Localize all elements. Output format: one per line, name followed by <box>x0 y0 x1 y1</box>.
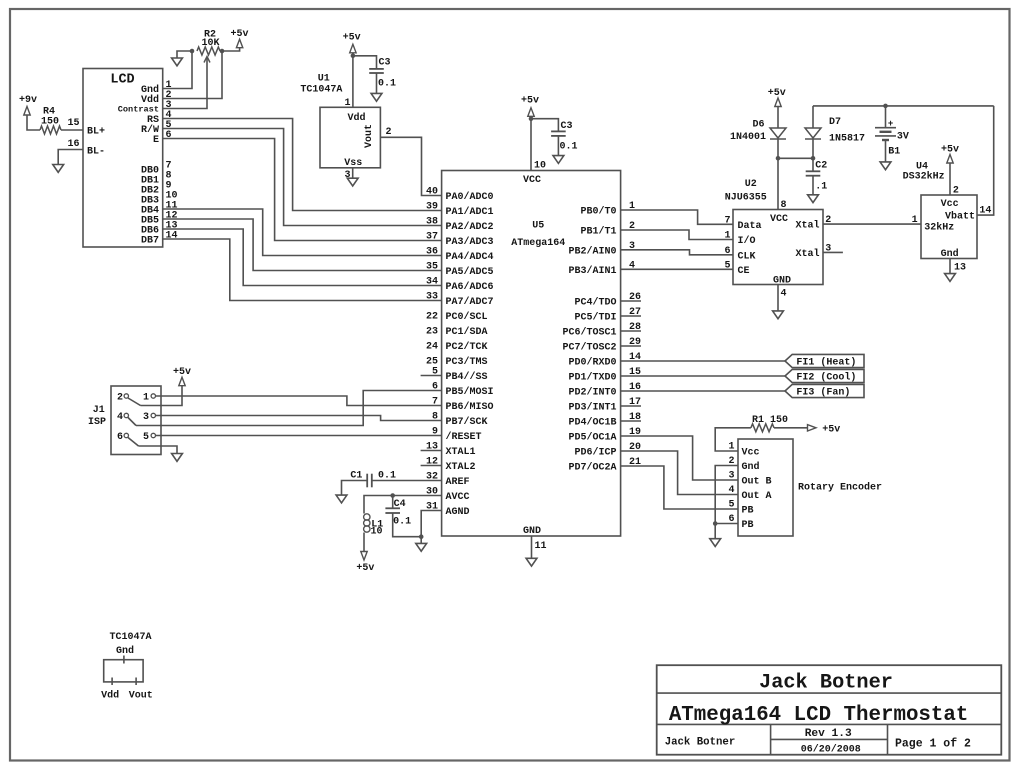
svg-text:+5v: +5v <box>768 88 786 99</box>
svg-text:TC1047A: TC1047A <box>109 632 151 643</box>
ground (C3 U5) <box>553 156 564 164</box>
svg-text:PB4//SS: PB4//SS <box>446 371 488 383</box>
U2 pin 8 VCC wire <box>777 158 779 209</box>
flag FI3 (Fan) <box>785 384 864 397</box>
wire J1 pin5 to U5 /RESET <box>156 435 442 437</box>
svg-text:C3: C3 <box>561 121 573 132</box>
wire D7 to junction <box>812 139 814 158</box>
svg-text:16: 16 <box>67 139 79 150</box>
svg-text:15: 15 <box>67 118 79 129</box>
svg-text:2: 2 <box>386 127 392 138</box>
svg-text:Jack Botner: Jack Botner <box>759 672 893 695</box>
wire LCD DB6 to U5 <box>163 229 442 286</box>
svg-text:6: 6 <box>724 246 730 257</box>
U1 pin 1 wire to +5v <box>352 53 354 108</box>
ground (AGND) <box>416 543 427 551</box>
svg-text:U5: U5 <box>532 221 544 232</box>
svg-text:Vcc: Vcc <box>742 448 760 459</box>
svg-text:5: 5 <box>728 500 734 511</box>
svg-text:24: 24 <box>426 342 438 353</box>
oscillator U4 DS32kHz <box>921 195 977 259</box>
svg-text:Rev 1.3: Rev 1.3 <box>805 728 852 740</box>
wire B1 to ground <box>885 140 887 162</box>
svg-text:R1 150: R1 150 <box>752 415 788 426</box>
svg-text:Gnd: Gnd <box>941 248 959 260</box>
svg-text:3: 3 <box>728 471 734 482</box>
svg-text:E: E <box>153 135 159 146</box>
svg-text:PD6/ICP: PD6/ICP <box>574 447 616 459</box>
svg-text:PC4/TDO: PC4/TDO <box>574 297 616 309</box>
svg-text:PC6/TOSC1: PC6/TOSC1 <box>562 327 616 339</box>
diode D6 1N4001 <box>770 128 786 138</box>
wire J1 pin2 net to +5v <box>141 386 183 406</box>
wire LCD Vdd pin2 to pot <box>163 51 222 99</box>
U1 pin 2 Vout wire to U5 PA0 <box>380 137 441 195</box>
wire C3 to ground <box>376 73 378 93</box>
svg-text:PD4/OC1B: PD4/OC1B <box>568 417 616 429</box>
wire U5 PD7/OC2A to encoder PB <box>621 466 738 509</box>
resistor R4 150 <box>40 126 61 134</box>
svg-text:1N4001: 1N4001 <box>730 132 766 143</box>
svg-text:D7: D7 <box>829 117 841 128</box>
svg-text:0.1: 0.1 <box>393 517 411 528</box>
svg-text:PA4/ADC4: PA4/ADC4 <box>446 251 494 263</box>
resistor R1 150 <box>751 424 774 432</box>
svg-text:Vss: Vss <box>344 158 362 169</box>
svg-text:PA5/ADC5: PA5/ADC5 <box>446 266 494 278</box>
capacitor C1 0.1 <box>366 474 368 488</box>
svg-text:VCC: VCC <box>770 214 788 225</box>
svg-text:PB2/AIN0: PB2/AIN0 <box>568 245 616 257</box>
wire junction to C3 <box>531 119 558 132</box>
svg-text:Vout: Vout <box>364 124 375 148</box>
svg-text:11: 11 <box>535 541 547 552</box>
wire LCD RS to U5 <box>163 119 442 211</box>
wire LCD E to U5 <box>163 139 442 241</box>
svg-text:0.1: 0.1 <box>378 79 396 90</box>
wire LCD R/W to U5 <box>163 129 442 226</box>
wire +5v to VCC pin 10 <box>530 116 532 170</box>
svg-text:PB: PB <box>742 506 754 517</box>
ground (U5 GND) <box>526 558 537 566</box>
svg-text:Vout: Vout <box>129 691 153 702</box>
svg-text:6: 6 <box>166 130 172 141</box>
svg-text:AVCC: AVCC <box>446 492 470 503</box>
junction VCC / C3 <box>529 116 534 121</box>
svg-text:Contrast: Contrast <box>118 105 159 115</box>
svg-text:Out B: Out B <box>742 477 772 488</box>
flag FI2 (Cool) <box>785 369 864 382</box>
wire LCD Contrast pin3 to pot wiper <box>163 58 207 109</box>
svg-text:4: 4 <box>728 485 734 496</box>
svg-text:2: 2 <box>953 186 959 197</box>
power +5v (R1, arrow right) <box>808 425 817 431</box>
svg-text:0.1: 0.1 <box>560 142 578 153</box>
svg-text:14: 14 <box>166 231 178 242</box>
wire junction D6-D7 <box>778 157 813 159</box>
svg-text:40: 40 <box>426 187 438 198</box>
wire encoder Gnd pin2 down to ground <box>715 466 738 539</box>
wire pot right to +5v <box>222 48 240 51</box>
svg-text:CE: CE <box>738 266 750 277</box>
svg-text:XTAL2: XTAL2 <box>446 462 476 473</box>
wire LCD Gnd pin1 to pot <box>163 51 192 89</box>
capacitor C3 0.1 (U1) <box>369 68 384 70</box>
ground (C3 U1) <box>371 93 382 101</box>
svg-text:PB5/MOSI: PB5/MOSI <box>446 386 494 398</box>
svg-text:J1: J1 <box>93 405 105 416</box>
power +5v (L1, arrow down) <box>361 552 367 561</box>
svg-text:Vdd: Vdd <box>347 112 365 124</box>
svg-text:32kHz: 32kHz <box>924 221 954 233</box>
svg-text:PD1/TXD0: PD1/TXD0 <box>568 372 616 384</box>
svg-text:Rotary Encoder: Rotary Encoder <box>798 482 882 494</box>
power +5v (U1) <box>350 44 356 53</box>
svg-text:CLK: CLK <box>738 251 756 262</box>
wire C4 top <box>392 496 394 509</box>
ground (J1) <box>172 454 183 462</box>
svg-text:6: 6 <box>117 432 123 443</box>
svg-text:C3: C3 <box>379 58 391 69</box>
junction AGND / C4 / ground <box>419 534 424 539</box>
svg-text:8: 8 <box>781 200 787 211</box>
microcontroller U5 ATmega164 <box>442 171 621 537</box>
svg-text:C4: C4 <box>394 499 406 510</box>
wire L1 to +5v (down arrow) <box>363 533 365 552</box>
J1 pin6 slash <box>128 438 139 447</box>
ground (U2) <box>773 311 784 319</box>
top wire battery rail <box>813 105 994 107</box>
svg-text:Page 1 of 2: Page 1 of 2 <box>895 738 971 751</box>
junction pot right <box>220 49 225 54</box>
svg-text:B1: B1 <box>888 147 900 158</box>
svg-text:3: 3 <box>143 412 149 423</box>
ground (R2 low side) <box>172 58 183 66</box>
wire U5 PD1/TXD0 to FI2 <box>621 375 785 377</box>
svg-text:+5v: +5v <box>173 367 191 378</box>
wire J1 pin1 to U5 PB6/MISO <box>156 396 442 406</box>
wire LCD DB4 to U5 <box>163 209 442 256</box>
svg-text:D6: D6 <box>752 120 764 131</box>
svg-text:PA0/ADC0: PA0/ADC0 <box>446 191 494 203</box>
svg-text:PA7/ADC7: PA7/ADC7 <box>446 296 494 308</box>
U5 GND pin 11 wire <box>531 536 533 558</box>
wire C1 to ground <box>342 481 368 496</box>
svg-text:1: 1 <box>143 393 149 404</box>
ground (encoder) <box>710 539 721 547</box>
wire encoder Vcc to R1 <box>715 428 751 451</box>
flag FI1 (Heat) <box>785 354 864 367</box>
svg-text:DB7: DB7 <box>141 236 159 247</box>
svg-text:10: 10 <box>371 527 383 538</box>
ground (U4) <box>945 274 956 282</box>
junction D7/C2 <box>811 156 816 161</box>
power +5v (J1) <box>179 377 185 386</box>
svg-text:LCD: LCD <box>110 73 134 88</box>
svg-text:FI1 (Heat): FI1 (Heat) <box>796 357 856 369</box>
svg-text:5: 5 <box>724 260 730 271</box>
svg-text:PB3/AIN1: PB3/AIN1 <box>568 265 616 277</box>
svg-text:4: 4 <box>781 289 787 300</box>
svg-text:BL-: BL- <box>87 147 105 158</box>
wire U5 PD5/OC1A to encoder Out B <box>621 436 738 480</box>
svg-text:PD0/RXD0: PD0/RXD0 <box>568 357 616 369</box>
svg-text:PD7/OC2A: PD7/OC2A <box>568 462 616 474</box>
wire LCD DB7 to U5 <box>163 239 442 301</box>
wire U5 PD0/RXD0 to FI1 <box>621 360 785 362</box>
U4 pin 13 Gnd wire <box>949 259 951 274</box>
svg-text:+5v: +5v <box>356 563 374 574</box>
R2 wiper arrow <box>204 57 210 63</box>
wire U5 PD6/ICP to encoder Out A <box>621 451 738 495</box>
svg-text:PA1/ADC1: PA1/ADC1 <box>446 206 494 218</box>
svg-text:Jack Botner: Jack Botner <box>665 737 736 749</box>
svg-text:ATmega164: ATmega164 <box>511 238 565 249</box>
svg-text:DS32kHz: DS32kHz <box>903 171 945 183</box>
wire U5 PB3/AIN1 to U2 CE <box>621 268 733 270</box>
svg-text:AREF: AREF <box>446 477 470 488</box>
wire U5 AVCC to L1 <box>364 496 442 514</box>
capacitor C2 .1 <box>812 158 814 171</box>
svg-text:PB: PB <box>742 520 754 531</box>
svg-text:TC1047A: TC1047A <box>300 85 342 96</box>
wire U5 PB1/T1 to U2 I/O <box>621 230 733 240</box>
svg-text:U1: U1 <box>318 74 330 85</box>
wire C2 to ground <box>812 176 814 195</box>
svg-text:GND: GND <box>523 526 541 537</box>
wire J1 pin3 to U5 PB7/SCK <box>156 416 442 421</box>
svg-text:Xtal: Xtal <box>795 248 819 260</box>
svg-text:PD5/OC1A: PD5/OC1A <box>568 432 616 444</box>
title block <box>657 665 1002 755</box>
svg-text:Xtal: Xtal <box>795 220 819 232</box>
diode D7 1N5817 <box>812 106 814 128</box>
svg-text:FI2 (Cool): FI2 (Cool) <box>796 372 856 384</box>
svg-text:PA3/ADC3: PA3/ADC3 <box>446 236 494 248</box>
svg-text:Gnd: Gnd <box>116 645 134 657</box>
wire R1 to +5v arrow <box>774 427 808 429</box>
svg-text:2: 2 <box>117 393 123 404</box>
U4 pin 14 Vbatt wire to battery rail <box>977 106 994 215</box>
svg-text:PB7/SCK: PB7/SCK <box>446 416 488 428</box>
svg-text:C2: C2 <box>815 161 827 172</box>
wire pot left to ground <box>177 51 192 58</box>
svg-text:+: + <box>888 119 893 129</box>
wire U5 AREF to C1 <box>372 480 442 482</box>
capacitor C3 0.1 (U5) <box>551 130 566 132</box>
wire U2 Xtal to U4 32kHz <box>823 223 921 225</box>
svg-text:3V: 3V <box>897 132 909 143</box>
svg-text:1: 1 <box>724 231 730 242</box>
svg-text:PC3/TMS: PC3/TMS <box>446 356 488 368</box>
wire C3 to ground <box>557 136 559 156</box>
svg-text:PA6/ADC6: PA6/ADC6 <box>446 281 494 293</box>
svg-text:ATmega164 LCD Thermostat: ATmega164 LCD Thermostat <box>669 704 969 727</box>
junction encoder gnd <box>713 521 718 526</box>
connector J1 ISP <box>111 386 161 455</box>
svg-text:PB1/T1: PB1/T1 <box>580 226 616 238</box>
U2 pin 4 GND wire <box>777 285 779 311</box>
svg-text:/RESET: /RESET <box>446 431 482 443</box>
svg-text:ISP: ISP <box>88 417 106 428</box>
svg-text:I/O: I/O <box>738 235 756 247</box>
svg-text:PB0/T0: PB0/T0 <box>580 206 616 218</box>
svg-text:Data: Data <box>738 221 762 232</box>
U1 pin 3 Vss wire <box>352 168 354 178</box>
svg-text:.1: .1 <box>815 182 827 193</box>
potentiometer R2 10K <box>197 47 220 55</box>
svg-text:+5v: +5v <box>822 424 840 435</box>
svg-text:PB6/MISO: PB6/MISO <box>446 401 494 413</box>
wire J1 pin4 to U5 PB5/MOSI <box>136 391 442 426</box>
svg-text:VCC: VCC <box>523 175 541 186</box>
power +5v (R2) <box>236 39 242 48</box>
rotary encoder S1 <box>738 439 793 536</box>
svg-text:AGND: AGND <box>446 507 470 518</box>
wire J1 pin6 to ground <box>139 446 178 454</box>
inductor L1 10 <box>364 514 370 520</box>
svg-text:BL+: BL+ <box>87 127 105 138</box>
svg-text:+5v: +5v <box>343 33 361 44</box>
svg-text:23: 23 <box>426 327 438 338</box>
temperature sensor U1 TC1047A <box>320 107 380 168</box>
svg-text:U2: U2 <box>745 179 757 190</box>
wire R4 to BL+ <box>61 129 83 131</box>
svg-text:13: 13 <box>954 263 966 274</box>
svg-text:10: 10 <box>534 161 546 172</box>
wire U5 AGND to ground <box>421 511 441 544</box>
svg-text:FI3 (Fan): FI3 (Fan) <box>796 387 850 399</box>
wire junction to C3 <box>353 56 377 69</box>
wire BL- to ground <box>58 150 83 165</box>
svg-text:Vdd: Vdd <box>101 690 119 702</box>
svg-text:PC7/TOSC2: PC7/TOSC2 <box>562 342 616 354</box>
svg-text:PC5/TDI: PC5/TDI <box>574 312 616 324</box>
svg-text:PC2/TCK: PC2/TCK <box>446 341 488 353</box>
svg-text:7: 7 <box>724 215 730 226</box>
wire U5 PB2/AIN0 to U2 CLK <box>621 250 733 255</box>
svg-text:PC0/SCL: PC0/SCL <box>446 311 488 323</box>
svg-text:Gnd: Gnd <box>742 461 760 473</box>
svg-text:PD2/INT0: PD2/INT0 <box>568 387 616 399</box>
svg-text:PC1/SDA: PC1/SDA <box>446 326 488 338</box>
LCD display module <box>83 69 163 248</box>
ground (BL-) <box>53 165 64 173</box>
svg-text:PD3/INT1: PD3/INT1 <box>568 402 616 414</box>
wire C4 bottom to ground junction <box>393 513 422 537</box>
ground (U1 Vss) <box>347 178 358 186</box>
svg-text:Vcc: Vcc <box>941 199 959 210</box>
svg-text:+5v: +5v <box>230 29 248 40</box>
svg-text:10K: 10K <box>201 38 219 49</box>
junction AVCC / C4 <box>390 493 395 498</box>
wire encoder PB pin6 <box>715 523 738 525</box>
svg-text:4: 4 <box>117 412 123 423</box>
svg-text:NJU6355: NJU6355 <box>725 193 767 204</box>
svg-text:0.1: 0.1 <box>378 471 396 482</box>
ground (C2) <box>808 195 819 203</box>
svg-text:22: 22 <box>426 312 438 323</box>
svg-text:06/20/2008: 06/20/2008 <box>801 744 861 756</box>
svg-text:1: 1 <box>912 215 918 226</box>
wire +5v to D6 <box>777 107 779 129</box>
ground (B1) <box>880 162 891 170</box>
J1 pin2 slash to +5v net <box>128 398 141 406</box>
J1 pin4 slash <box>128 418 136 426</box>
junction battery rail <box>883 104 888 109</box>
RTC U2 NJU6355 <box>733 210 823 285</box>
capacitor C4 0.1 <box>385 507 400 509</box>
svg-text:XTAL1: XTAL1 <box>446 447 476 458</box>
svg-text:150: 150 <box>41 117 59 128</box>
junction pot left <box>190 49 195 54</box>
junction U1 vcc / C3 <box>351 54 356 59</box>
svg-text:1: 1 <box>344 98 350 109</box>
svg-text:14: 14 <box>979 206 991 217</box>
svg-text:1N5817: 1N5817 <box>829 133 865 144</box>
svg-text:+5v: +5v <box>521 96 539 107</box>
junction D6/VCC <box>776 156 781 161</box>
ground (C1) <box>336 495 347 503</box>
wire +9v to R4 <box>27 115 40 130</box>
svg-text:5: 5 <box>143 432 149 443</box>
svg-text:PA2/ADC2: PA2/ADC2 <box>446 221 494 233</box>
svg-text:Vbatt: Vbatt <box>945 210 975 222</box>
U4 pin 2 Vcc wire <box>949 163 951 195</box>
svg-text:GND: GND <box>773 276 791 287</box>
wire LCD DB5 to U5 <box>163 219 442 271</box>
svg-text:+9v: +9v <box>19 95 37 106</box>
battery B1 3V <box>885 106 887 128</box>
wire U5 PD2/INT0 to FI3 <box>621 390 785 392</box>
wire D6 to VCC junction <box>777 139 779 158</box>
wire U5 PB0/T0 to U2 Data <box>621 210 733 224</box>
svg-text:Out A: Out A <box>742 491 772 502</box>
